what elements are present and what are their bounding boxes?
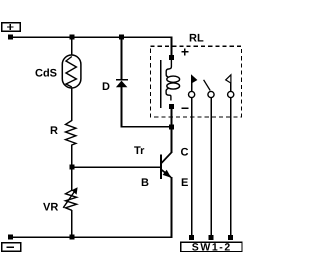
wire bottom rail xyxy=(10,236,172,238)
wire CdS to R xyxy=(71,88,73,121)
label coil - xyxy=(182,107,189,109)
label coil + xyxy=(182,51,189,53)
connector SW1-2 box xyxy=(181,242,242,251)
relay contact 1 flag (filled) xyxy=(191,74,197,83)
relay contact 1 circle xyxy=(189,91,195,97)
node SW terminal 2 xyxy=(209,235,214,240)
node + terminal xyxy=(8,35,13,40)
node SW terminal 3 xyxy=(228,235,233,240)
relay contact 1 lower lead xyxy=(191,98,193,235)
battery + terminal box xyxy=(2,23,21,32)
potentiometer VR arrow xyxy=(63,192,74,208)
node R/VR junction xyxy=(69,165,74,170)
wire CdS top lead xyxy=(71,39,73,55)
relay contact 2 lower lead xyxy=(210,98,212,235)
node diode/collector junction xyxy=(169,124,174,129)
wire VR to bottom rail xyxy=(71,210,73,237)
wire coil - to diode junction xyxy=(171,108,173,127)
diode D triangle xyxy=(116,81,128,88)
node - terminal xyxy=(8,235,13,240)
svg-text:CdS: CdS xyxy=(35,68,57,80)
relay RL dashed enclosure xyxy=(151,46,242,117)
photoresistor CdS body xyxy=(62,55,81,88)
resistor R zigzag xyxy=(66,121,76,146)
relay contact 2 armature xyxy=(204,80,211,91)
node SW terminal 1 xyxy=(189,235,194,240)
relay contact 3 lower lead xyxy=(230,98,232,235)
potentiometer VR zigzag xyxy=(66,190,77,210)
svg-text:C: C xyxy=(181,147,189,159)
relay contact 3 flag (open) xyxy=(226,75,231,83)
relay contact 3 circle xyxy=(228,91,234,97)
battery - terminal box xyxy=(2,243,21,252)
relay coil loops xyxy=(166,60,171,77)
svg-text:E: E xyxy=(181,177,188,189)
svg-text:RL: RL xyxy=(189,33,204,45)
wire diode bottom lead xyxy=(121,87,123,127)
wire R to junction xyxy=(71,145,73,168)
wire top rail xyxy=(10,36,172,38)
minus symbol in - box xyxy=(7,246,14,247)
svg-text:D: D xyxy=(102,81,110,93)
wire top rail drop to coil xyxy=(171,37,173,56)
plus symbol in + box xyxy=(7,26,13,27)
svg-text:VR: VR xyxy=(43,202,58,214)
transistor Tr emitter lead with arrow xyxy=(162,170,171,177)
wire junction to VR xyxy=(71,169,73,191)
relay contact 1 upper lead xyxy=(191,82,193,92)
wire base from R/VR junction xyxy=(72,166,160,168)
node CdS top junction xyxy=(69,35,74,40)
svg-text:SW1-2: SW1-2 xyxy=(192,241,232,253)
node diode top junction xyxy=(119,35,124,40)
relay contact 2 circle xyxy=(208,91,214,97)
relay core bar xyxy=(160,60,161,108)
node coil + terminal xyxy=(169,55,174,60)
diode D cathode bar xyxy=(116,79,128,81)
node VR bottom junction xyxy=(69,235,74,240)
svg-text:Tr: Tr xyxy=(134,145,145,157)
transistor Tr collector lead xyxy=(171,129,173,153)
svg-text:R: R xyxy=(50,125,58,137)
photoresistor CdS zigzag xyxy=(66,57,76,88)
wire diode top lead xyxy=(121,39,123,79)
relay contact 3 upper lead xyxy=(230,83,232,92)
svg-text:B: B xyxy=(141,177,149,189)
wire diode to collector junction xyxy=(121,126,173,128)
transistor Tr base bar xyxy=(160,154,162,179)
node coil - terminal xyxy=(169,104,174,109)
